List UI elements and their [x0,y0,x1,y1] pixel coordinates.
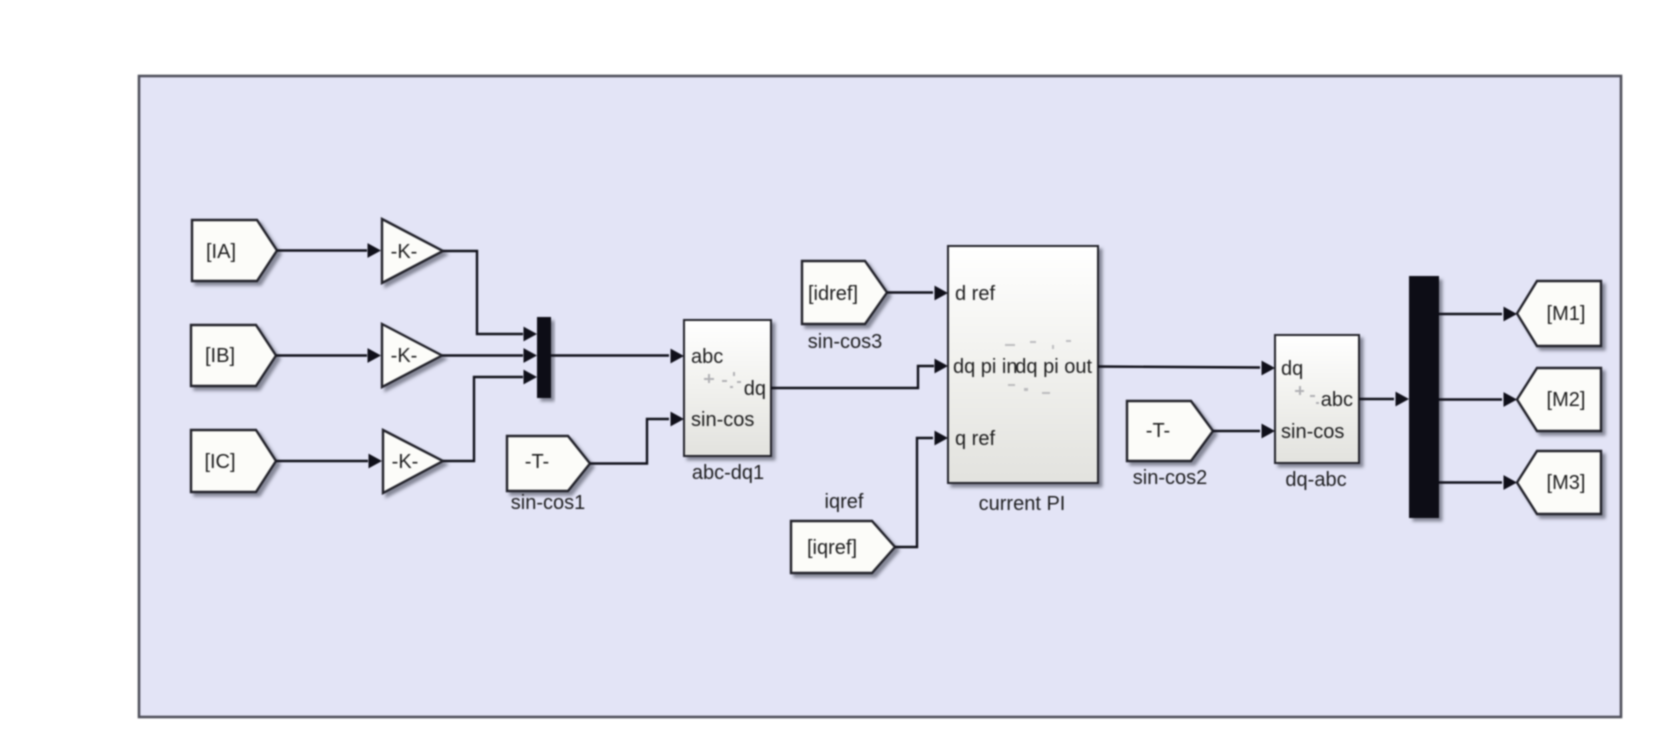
subsystem current PI [948,246,1098,483]
gain K2 [382,324,442,387]
svg-text:[IB]: [IB] [205,345,235,367]
svg-text:dq-abc: dq-abc [1285,469,1346,491]
label dq-abc [1285,469,1346,491]
svg-text:-K-: -K- [392,451,419,473]
wire K3 to mux [443,370,537,461]
svg-text:[M1]: [M1] [1547,303,1586,325]
demux [1409,276,1439,518]
from tag sin-cos2 [1127,401,1213,461]
gain K1 [382,219,443,283]
svg-text:current PI: current PI [979,493,1066,515]
label sin-cos2 [1133,467,1207,489]
svg-text:sin-cos1: sin-cos1 [511,492,585,514]
svg-text:dq pi out: dq pi out [1015,356,1092,378]
wire IB to K2 [276,348,381,363]
wire K1 to mux [443,251,537,341]
label abc-dq1 [692,462,764,484]
svg-text:[IA]: [IA] [206,241,236,263]
wire current PI to dq-abc [1098,361,1275,376]
gain K3 [383,430,443,493]
from tag iqref [791,521,895,573]
from tag idref [802,261,887,324]
svg-text:[iqref]: [iqref] [807,537,857,559]
svg-text:dq pi in: dq pi in [953,356,1018,378]
wire demux to M1 [1439,307,1517,322]
svg-text:[M3]: [M3] [1547,472,1586,494]
goto tag M3 [1517,451,1601,514]
wire dq-abc to demux [1359,392,1409,407]
svg-text:sin-cos: sin-cos [691,409,754,431]
wire IA to K1 [277,243,381,258]
label sin-cos1 [511,492,585,514]
svg-text:[idref]: [idref] [808,283,858,305]
canvas frame [139,76,1621,717]
mux [537,317,551,398]
label current PI [979,493,1066,515]
wire idref to current PI [887,286,948,301]
svg-text:-T-: -T- [525,451,549,473]
svg-text:sin-cos3: sin-cos3 [808,331,882,353]
wire abc-dq1 dq to current PI [771,359,948,388]
wire iqref to current PI [895,431,948,547]
svg-text:abc: abc [691,346,723,368]
wire IC to K3 [276,454,382,469]
svg-text:sin-cos: sin-cos [1281,421,1344,443]
goto tag M1 [1517,281,1601,346]
from tag sin-cos1 [507,436,590,491]
svg-text:[M2]: [M2] [1547,389,1586,411]
svg-text:dq: dq [744,378,766,400]
wire demux to M2 [1439,392,1517,407]
svg-text:iqref: iqref [825,491,864,513]
wire demux to M3 [1439,475,1517,490]
from tag IC [191,430,276,492]
svg-text:-T-: -T- [1146,420,1170,442]
svg-text:[IC]: [IC] [204,451,235,473]
svg-text:abc: abc [1321,389,1353,411]
wire K2 to mux [442,348,537,363]
from tag IB [191,325,276,386]
wire sin-cos1 to abc-dq1 [590,412,684,464]
svg-text:dq: dq [1281,358,1303,380]
svg-text:abc-dq1: abc-dq1 [692,462,764,484]
from tag IA [192,220,277,281]
svg-text:sin-cos2: sin-cos2 [1133,467,1207,489]
svg-text:d ref: d ref [955,283,995,305]
wire mux to abc-dq1 [551,349,684,364]
svg-text:q ref: q ref [955,428,995,450]
label iqref [825,491,864,513]
subsystem dq-abc [1275,335,1359,463]
goto tag M2 [1517,368,1601,431]
svg-text:-K-: -K- [391,241,418,263]
svg-text:-K-: -K- [391,345,418,367]
wire sin-cos2 to dq-abc [1213,424,1275,439]
subsystem abc-dq1 [684,320,771,456]
label sin-cos3 [808,331,882,353]
